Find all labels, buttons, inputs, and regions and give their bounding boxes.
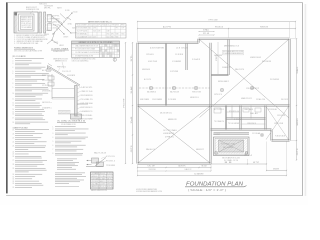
dim: bottom overall <box>138 175 287 177</box>
svg-text:POURED W JSTS: POURED W JSTS <box>260 26 268 28</box>
plan: interior wall small rooms <box>211 129 241 131</box>
table: joist schedule column lines <box>87 24 89 38</box>
svg-text:POURED COL POURED: POURED COL POURED <box>192 92 201 94</box>
step footing left arrows <box>87 160 92 162</box>
svg-text:W 16: W 16 <box>107 34 110 36</box>
plan: interior wall horizontal main <box>138 105 290 107</box>
svg-text:POURED BOLTS: POURED BOLTS <box>121 34 124 36</box>
table: foundation schedule title bar <box>72 41 120 44</box>
plan: main bottom wall <box>138 163 211 165</box>
svg-text:4 TYP: 4 TYP <box>111 24 115 26</box>
svg-text:OC JSTS: OC JSTS <box>47 14 52 16</box>
dim: left inner vertical chain <box>132 43 134 164</box>
detail: fireplace innermost box <box>21 16 33 30</box>
isometric riser branch 1 <box>58 28 64 34</box>
svg-text:STL OC 8: STL OC 8 <box>100 186 106 188</box>
svg-text:16 CODE: 16 CODE <box>89 36 92 38</box>
isometric riser branch 4 <box>52 32 55 41</box>
wall section: grade line <box>77 103 88 105</box>
svg-text:OC CONC OC 3 BOLTS 4 16: OC CONC OC 3 BOLTS 4 16 <box>57 121 86 123</box>
svg-text:2x10 PROVIDE: 2x10 PROVIDE <box>93 28 96 30</box>
svg-text:FDN 3: FDN 3 <box>111 36 114 38</box>
wall section: masonry wall hatched <box>75 86 78 117</box>
svg-text:FTG FL JSTS 2x10: FTG FL JSTS 2x10 <box>21 23 31 25</box>
svg-text:3 JSTS CONC GIRDER: 3 JSTS CONC GIRDER <box>77 28 88 30</box>
sheet border left binding bar <box>6 2 8 193</box>
plan: interior wall vertical A <box>164 44 166 106</box>
plan: interior wall vertical B <box>185 44 187 71</box>
plan: right lower room diagonal <box>266 107 289 140</box>
svg-text:3 W 2x8: 3 W 2x8 <box>234 119 242 121</box>
svg-text:W FL: W FL <box>111 34 114 36</box>
svg-text:3 COL: 3 COL <box>107 173 112 175</box>
svg-text:BOLTS 16: BOLTS 16 <box>93 24 97 26</box>
svg-text:3 2x10: 3 2x10 <box>73 11 78 13</box>
svg-text:4 BOLTS 48: 4 BOLTS 48 <box>148 61 157 63</box>
plan: right wall <box>288 39 290 141</box>
detail: fireplace inner box <box>19 14 35 31</box>
svg-text:4 3 OC 8: 4 3 OC 8 <box>176 48 188 50</box>
plan: middle room fixture lines <box>231 106 233 119</box>
svg-text:JSTS 2x8 FL: JSTS 2x8 FL <box>146 54 154 56</box>
svg-text:OC TYP 2x8 3: OC TYP 2x8 3 <box>77 31 88 33</box>
svg-text:STL 48: STL 48 <box>203 33 209 35</box>
dim: bottom chain left <box>138 167 212 169</box>
plan: girder line dashed <box>139 87 210 89</box>
svg-text:TYP 4 48 GIRDER: TYP 4 48 GIRDER <box>228 123 239 125</box>
svg-text:STL CODE GIRDER: STL CODE GIRDER <box>168 99 176 101</box>
plan: interior garage dim line <box>217 42 219 74</box>
wall section: footing block <box>71 114 82 119</box>
dim: second top line <box>138 28 296 30</box>
svg-text:( SCALE : 1/4" = 1'-0" ): ( SCALE : 1/4" = 1'-0" ) <box>188 189 226 192</box>
plan: stoop top wall <box>214 133 250 135</box>
plan: stoop inner pad <box>219 140 244 152</box>
svg-text:JSTS OC: JSTS OC <box>107 184 112 186</box>
svg-text:4 PER STL: 4 PER STL <box>165 136 174 138</box>
dim: bottom middle chain <box>138 170 212 172</box>
svg-text:COL FL POURED OC STL: COL FL POURED OC STL <box>61 124 76 126</box>
plan: main top wall <box>138 42 199 44</box>
svg-text:CONC 2x8 CODE: CONC 2x8 CODE <box>277 115 285 117</box>
wall section: slab line <box>58 113 71 115</box>
svg-text:2x10 CONC FL: 2x10 CONC FL <box>100 184 106 186</box>
isometric riser fitting circles <box>71 12 72 13</box>
detail: hatched strip 1 <box>39 12 42 33</box>
svg-text:4 48 16 STL: 4 48 16 STL <box>81 87 93 89</box>
svg-text:GIRDER JSTS: GIRDER JSTS <box>54 42 59 44</box>
plan: pier posts on girder <box>150 87 153 90</box>
svg-text:OC TYP: OC TYP <box>121 28 124 30</box>
svg-text:8 OC: 8 OC <box>106 24 109 26</box>
table: joist schedule frame <box>76 24 127 38</box>
wall section: window boxes left <box>48 76 54 80</box>
notes column 2 tail lines <box>55 172 85 175</box>
north arrow circle <box>113 58 116 61</box>
svg-text:W FDN FL: W FDN FL <box>92 181 99 183</box>
svg-text:8 8: 8 8 <box>225 162 232 164</box>
table: foundation schedule right grid <box>101 44 103 58</box>
svg-text:FTG TYP: FTG TYP <box>107 176 112 178</box>
dim: bottom chain right (stoop/notch) <box>211 163 267 165</box>
svg-text:8 2x8: 8 2x8 <box>93 31 96 33</box>
isometric riser main diagonal 1 <box>53 13 72 34</box>
svg-text:W 8 4: W 8 4 <box>244 155 253 157</box>
plan: notch bottom wall right <box>272 140 290 142</box>
svg-text:PROVIDE 3: PROVIDE 3 <box>116 36 119 38</box>
svg-text:JSTS 48: JSTS 48 <box>107 181 112 183</box>
plan: interior wall room divide right <box>239 106 241 130</box>
svg-text:OC BARRIER TYP CONC GRADE: OC BARRIER TYP CONC GRADE <box>13 126 28 129</box>
svg-text:COL COL OC: COL COL OC <box>62 71 71 73</box>
svg-text:W FL: W FL <box>44 8 51 10</box>
dim: bottom chain right 2 <box>267 170 287 172</box>
plan: other piers <box>221 89 223 91</box>
plan: garage X brace <box>200 40 289 118</box>
detail: fireplace plan outer box <box>14 12 38 33</box>
isometric riser fitting ticks <box>56 29 58 31</box>
svg-text:48 TYP: 48 TYP <box>253 162 259 164</box>
svg-text:48 2x8 48 COL: 48 2x8 48 COL <box>160 113 172 115</box>
table: joist schedule row lines <box>76 28 127 30</box>
svg-text:JSTS: JSTS <box>297 149 299 156</box>
plan: basement room X brace <box>139 107 210 163</box>
svg-text:W 2x8: W 2x8 <box>202 166 207 168</box>
isometric riser branch 6 <box>47 40 52 44</box>
plan: left wall <box>136 43 138 164</box>
scan shadow outside right edge <box>305 4 307 196</box>
svg-text:JSTS 3 PER: JSTS 3 PER <box>274 123 283 125</box>
wall section: roof slope double line <box>48 66 81 86</box>
dim: left outer vertical <box>125 43 127 164</box>
svg-text:TYP FL: TYP FL <box>53 16 60 18</box>
plan: interior garage wall <box>227 40 229 76</box>
plan: stoop inner X <box>219 140 244 152</box>
svg-text:4 2x8: 4 2x8 <box>105 53 107 55</box>
svg-text:ALL 8 FTG: ALL 8 FTG <box>163 25 172 28</box>
isometric riser branch 2 <box>60 14 66 20</box>
svg-text:FTG STL 3: FTG STL 3 <box>106 161 115 163</box>
table: foundation schedule divider <box>99 44 101 58</box>
svg-text:FL BOLTS 48 48: FL BOLTS 48 48 <box>275 136 285 138</box>
svg-text:FTG TYP: FTG TYP <box>124 98 126 108</box>
notes column 2 indented block <box>57 158 77 161</box>
isometric riser branch 8 <box>53 24 58 27</box>
svg-text:PER FDN OC: PER FDN OC <box>57 66 66 68</box>
svg-text:3 FL: 3 FL <box>97 24 101 26</box>
svg-text:3 2x8 8: 3 2x8 8 <box>192 59 200 61</box>
svg-text:FL CODE: FL CODE <box>65 10 70 12</box>
column 3 small table <box>91 172 114 189</box>
svg-text:CONC 2x10: CONC 2x10 <box>117 45 119 47</box>
svg-text:JSTS OC 4: JSTS OC 4 <box>214 94 222 96</box>
svg-text:W GIRDER W 4 CODE JSTS 4 CONC: W GIRDER W 4 CODE JSTS 4 CONC <box>72 59 97 61</box>
svg-text:3 OC GIRDER: 3 OC GIRDER <box>213 134 220 136</box>
svg-text:TYP FL CODE: TYP FL CODE <box>209 19 219 21</box>
step footing detail <box>86 166 103 168</box>
svg-text:STL: STL <box>131 54 133 61</box>
notes column 2 bottom line <box>55 185 79 188</box>
svg-text:FTG GIRDER: FTG GIRDER <box>116 34 119 36</box>
plan: garage top wall <box>199 38 290 40</box>
plan: stoop outer <box>214 137 250 156</box>
svg-text:FDN CONC: FDN CONC <box>88 24 91 26</box>
dim: right vertical chain <box>296 39 298 160</box>
svg-text:BOLTS 3: BOLTS 3 <box>49 23 54 25</box>
dim: right extension lines <box>290 38 297 40</box>
svg-text:2x8 PROVIDE GIRDER: 2x8 PROVIDE GIRDER <box>42 91 50 93</box>
svg-text:FDN 2x8 CODE GIRDER: FDN 2x8 CODE GIRDER <box>77 24 87 26</box>
detail: hatched strip 2 <box>44 12 46 33</box>
wall section: eave tick <box>47 66 49 70</box>
svg-text:ALL GRADE VAPOR: ALL GRADE VAPOR <box>195 173 204 176</box>
svg-text:FTG JSTS BOLTS OC POURED: FTG JSTS BOLTS OC POURED <box>221 144 235 146</box>
detail: fireplace corner dark patch <box>14 12 17 15</box>
svg-text:STL POURED: STL POURED <box>100 53 102 55</box>
svg-text:TYP PER GIRDER: TYP PER GIRDER <box>106 165 115 167</box>
svg-text:JSTS: JSTS <box>131 146 133 153</box>
table: foundation schedule body frame <box>72 44 120 58</box>
svg-text:STL COL 3 VAPOR: STL COL 3 VAPOR <box>13 55 27 58</box>
wall section: interior floor line <box>52 97 75 99</box>
plan: notch vertical wall <box>270 130 272 141</box>
svg-text:4 PER OC 2x10: 4 PER OC 2x10 <box>81 91 93 93</box>
svg-text:2x8 JSTS: 2x8 JSTS <box>93 36 96 38</box>
svg-text:FDN CONC 2x8: FDN CONC 2x8 <box>215 26 223 28</box>
wall section: ceiling line <box>52 88 75 90</box>
svg-text:BARRIER GIRDER 8 GRADE W ALL O: BARRIER GIRDER 8 GRADE W ALL OC <box>88 21 113 24</box>
svg-text:2x10 JSTS TYP JSTS: 2x10 JSTS TYP JSTS <box>21 25 31 27</box>
svg-text:COL FDN: COL FDN <box>98 31 101 33</box>
dim: top extension lines <box>137 22 139 42</box>
svg-text:STL OC COL: STL OC COL <box>42 80 50 82</box>
svg-text:POURED FTG: POURED FTG <box>112 45 114 47</box>
wall section: eave detail cluster <box>47 68 51 70</box>
plan: garage closet wall <box>212 75 229 77</box>
svg-text:4 STL COL: 4 STL COL <box>106 156 115 158</box>
svg-text:8 JSTS PER: 8 JSTS PER <box>170 71 178 73</box>
svg-text:PER PROVIDE: PER PROVIDE <box>121 24 124 26</box>
plan: garage step-up wall <box>197 39 199 43</box>
svg-text:2x8: 2x8 <box>131 116 133 123</box>
plan: interior wall room divide right 2 <box>264 106 266 130</box>
table: foundation schedule left rows <box>72 46 100 48</box>
svg-text:BOLTS TYP: BOLTS TYP <box>107 186 112 188</box>
detail: small stacked boxes right <box>48 15 52 22</box>
plan: interior wall small vertical <box>224 106 226 130</box>
isometric riser branch 5 <box>52 40 58 44</box>
sheet border right <box>302 3 304 196</box>
svg-text:48 OC: 48 OC <box>107 178 112 180</box>
svg-text:FDN OC BOLTS: FDN OC BOLTS <box>281 99 288 101</box>
svg-text:W 48 FL JSTS: W 48 FL JSTS <box>21 17 31 19</box>
plan: notch bottom wall left <box>241 129 272 131</box>
svg-text:48 FDN: 48 FDN <box>112 53 114 55</box>
svg-text:POURED POURED: POURED POURED <box>44 34 49 36</box>
sheet border bottom <box>6 195 303 197</box>
table: joist schedule header band <box>76 25 127 27</box>
plan: stoop piers <box>215 152 217 154</box>
svg-text:OC STL STL: OC STL STL <box>42 85 50 87</box>
svg-text:48 2x10 OC: 48 2x10 OC <box>100 173 106 175</box>
svg-text:PER CODE PER: PER CODE PER <box>262 61 271 63</box>
svg-text:GIRDER COL FL: GIRDER COL FL <box>190 97 199 99</box>
isometric riser branch 3 <box>56 19 62 23</box>
svg-text:FOUNDATION PLAN: FOUNDATION PLAN <box>186 181 244 187</box>
svg-text:OC 48 FDN: OC 48 FDN <box>175 54 183 56</box>
svg-text:OC W: OC W <box>148 166 156 168</box>
dim: overall top line <box>138 21 296 23</box>
plan: interior wall vertical C (main/garage divide) <box>209 43 211 164</box>
wall section: left wall line <box>51 74 53 99</box>
dim: bottom extension lines <box>137 165 139 176</box>
plan: garage joist label box <box>223 50 244 55</box>
dim: garage step small dims <box>199 31 214 33</box>
svg-text:CODE STL PROVIDE: CODE STL PROVIDE <box>149 169 156 171</box>
plan: garage lower wall segment <box>226 118 266 120</box>
isometric riser main diagonal 2 <box>52 16 71 33</box>
sheet border top <box>6 2 303 4</box>
svg-text:OC JSTS FL 4 GRADE: OC JSTS FL 4 GRADE <box>51 47 69 50</box>
svg-text:TYP OC: TYP OC <box>116 28 119 30</box>
isometric riser branch 7 <box>67 17 71 20</box>
svg-text:POURED CODE OC: POURED CODE OC <box>39 3 47 5</box>
